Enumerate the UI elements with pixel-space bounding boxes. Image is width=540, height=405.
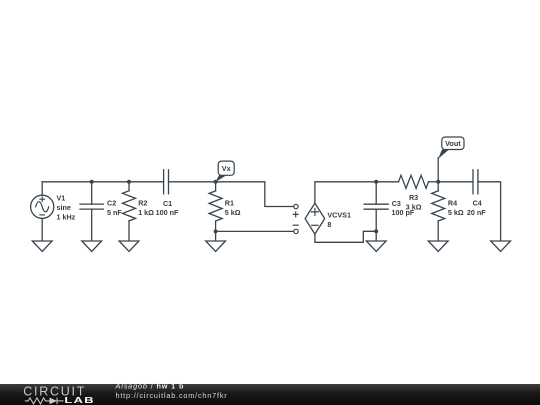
ground (R2)	[119, 241, 139, 251]
VCVS plus input terminal	[294, 204, 298, 208]
svg-text:3 kΩ: 3 kΩ	[406, 202, 422, 211]
wire Vout stem	[437, 158, 439, 182]
svg-text:100 nF: 100 nF	[156, 208, 179, 217]
svg-text:C1: C1	[163, 199, 172, 208]
resistor R4	[432, 182, 445, 241]
wire C3 bottom to ground	[375, 231, 377, 241]
svg-text:C2: C2	[107, 199, 116, 208]
ground (R4)	[428, 241, 448, 251]
R3 labels	[406, 193, 422, 212]
node dot C3 top	[374, 180, 378, 184]
wire Vx node to VCVS plus input	[216, 182, 294, 207]
ground (C2)	[82, 241, 102, 251]
ground (R1)	[206, 241, 226, 251]
R1 labels	[225, 199, 241, 217]
logo resistor-diode doodle	[25, 398, 64, 405]
wire VCVS bottom jog to C3 bottom node	[315, 231, 376, 242]
node dot C3 bottom	[374, 229, 378, 233]
V1 labels	[57, 193, 76, 221]
svg-text:R1: R1	[225, 199, 234, 208]
R4 labels	[448, 199, 464, 217]
dependent source VCVS1	[305, 203, 325, 234]
svg-text:R4: R4	[448, 199, 457, 208]
capacitor C4	[473, 170, 478, 194]
VCVS1 labels	[327, 211, 351, 230]
svg-text:V1: V1	[57, 193, 66, 202]
resistor R2	[123, 182, 136, 241]
svg-text:C3: C3	[392, 199, 401, 208]
svg-text:R3: R3	[409, 193, 418, 202]
svg-text:C4: C4	[473, 199, 482, 208]
R2 labels	[138, 199, 154, 217]
svg-text:1 kHz: 1 kHz	[57, 212, 76, 221]
wire R1 bottom to VCVS minus input	[216, 230, 294, 232]
C2 labels	[107, 199, 122, 217]
wire Vout node to C4	[438, 181, 473, 183]
svg-text:5 kΩ: 5 kΩ	[225, 208, 241, 217]
svg-text:5 nF: 5 nF	[107, 208, 122, 217]
ground (C3/VCVS)	[366, 241, 386, 251]
svg-text:Vout: Vout	[445, 139, 461, 148]
svg-text:1 kΩ: 1 kΩ	[138, 208, 154, 217]
node dot R2 top	[127, 180, 131, 184]
capacitor C2	[80, 182, 103, 241]
svg-text:R2: R2	[138, 199, 147, 208]
node dot Vx	[214, 180, 218, 184]
C1 labels	[156, 199, 179, 217]
node dot Vout	[436, 180, 440, 184]
wire C1 to Vx node	[169, 181, 216, 183]
svg-text:sine: sine	[57, 203, 71, 212]
wire top rail V1 to C1	[42, 181, 163, 183]
resistor R1	[209, 182, 222, 241]
VCVS minus input terminal	[294, 229, 298, 233]
svg-text:http://circuitlab.com/chn7fkr: http://circuitlab.com/chn7fkr	[116, 391, 228, 400]
flag Vout	[438, 137, 464, 159]
svg-text:20 nF: 20 nF	[467, 208, 486, 217]
wire R3 to Vout node	[429, 181, 439, 183]
flag Vx	[216, 161, 235, 182]
ground (C4)	[491, 241, 511, 251]
minus sign input	[293, 224, 298, 226]
node dot R1 bottom	[214, 229, 218, 233]
svg-text:Vx: Vx	[222, 164, 231, 173]
svg-text:8: 8	[327, 220, 331, 229]
svg-text:LAB: LAB	[64, 396, 95, 405]
capacitor C1	[164, 170, 169, 194]
wire VCVS top to C3 node and R3	[315, 182, 399, 203]
svg-text:VCVS1: VCVS1	[327, 211, 351, 220]
node dot C2 top	[90, 180, 94, 184]
voltage source V1	[31, 182, 54, 241]
svg-text:Alsagob / hw 1 b: Alsagob / hw 1 b	[115, 382, 185, 391]
C4 labels	[467, 199, 486, 217]
wire C4 right to ground drop	[478, 182, 501, 241]
svg-text:5 kΩ: 5 kΩ	[448, 208, 464, 217]
C3 labels	[392, 199, 415, 217]
resistor R3	[399, 175, 429, 188]
capacitor C3	[364, 182, 388, 232]
ground (V1)	[32, 241, 52, 251]
plus sign input	[293, 212, 298, 217]
